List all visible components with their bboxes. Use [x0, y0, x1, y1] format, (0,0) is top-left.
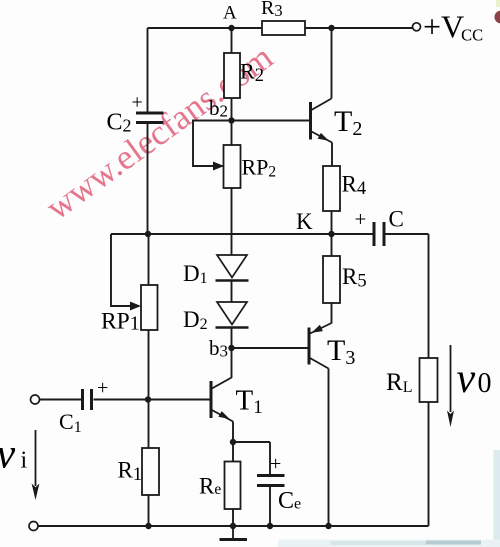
svg-text:+: + [270, 453, 281, 475]
wire middle vertical RP2 to D1 [231, 188, 233, 255]
svg-text:v: v [0, 432, 16, 478]
wire left vertical above C2 [147, 28, 149, 112]
potentiometer RP2 [213, 145, 276, 188]
wire middle vertical A to R2 [231, 28, 233, 53]
svg-text:D2: D2 [183, 307, 208, 333]
wire b2 to T2 base [232, 120, 311, 122]
wire C1 terminal to C1 [40, 399, 82, 401]
node A [223, 3, 237, 32]
node K [296, 209, 335, 237]
wire D1 to D2 [231, 281, 233, 302]
wire Re to bottom rail [232, 509, 234, 526]
wire emitter node to Ce [233, 441, 270, 443]
wire T1 base row [94, 399, 212, 401]
capacitor Ce [257, 453, 301, 514]
wire R4 to K node [331, 211, 333, 234]
svg-text:D1: D1 [183, 261, 208, 287]
svg-text:+: + [97, 377, 108, 399]
resistor Re [199, 462, 241, 510]
wire T2 emitter vertical to R4 [331, 143, 333, 167]
wire K node to R5 [331, 234, 333, 256]
resistor RL [386, 358, 438, 402]
transistor T2 [311, 99, 363, 143]
wire bottom rail [38, 525, 429, 527]
potentiometer RP1 [101, 285, 158, 335]
svg-text:A: A [223, 3, 237, 24]
node bottom rail T3 [325, 523, 331, 529]
wire top rail right segment [305, 27, 414, 29]
resistor R4 [323, 166, 366, 211]
node b2 [209, 96, 235, 124]
watermark www.elecfans.com [38, 36, 280, 227]
label vi with arrow [0, 430, 39, 500]
svg-text:+: + [132, 92, 143, 114]
resistor R5 [323, 256, 367, 303]
wire left vertical C2 to K-row [147, 124, 149, 234]
scan artifact right edge strip [494, 450, 500, 547]
resistor R3 [261, 0, 305, 35]
wire R5 to T3 emitter [331, 303, 333, 324]
wire middle vertical R2 to b2 [231, 98, 233, 145]
scan artifact top-right red blob [495, 11, 500, 24]
svg-text:R5: R5 [342, 264, 367, 292]
wire right vertical to RL [428, 234, 430, 358]
wire K-row horizontal [111, 233, 373, 235]
capacitor C1 [59, 377, 108, 436]
scan artifact bottom band [278, 540, 500, 547]
wire Ce top vertical [269, 442, 271, 474]
svg-text:+: + [355, 207, 367, 231]
terminal +Vcc [413, 9, 484, 45]
svg-text:RP2: RP2 [242, 155, 277, 181]
wire D2 to b3 [231, 328, 233, 348]
svg-text:T2: T2 [334, 105, 362, 140]
svg-text:R3: R3 [261, 0, 283, 20]
wire b2 left branch to RP2 wiper [193, 121, 232, 167]
svg-text:b3: b3 [209, 336, 228, 361]
node at Vcc branch [328, 25, 334, 31]
svg-text:Re: Re [199, 474, 221, 499]
wire T1 emitter vertical [232, 422, 234, 462]
resistor R1 [118, 448, 160, 495]
wire left vertical K-row to RP1 [148, 234, 150, 285]
node b3 [209, 336, 235, 361]
svg-text:i: i [21, 448, 28, 474]
svg-text:C: C [389, 207, 404, 232]
wire b3 down to T1 collector [231, 348, 233, 378]
node T1 base junction [145, 396, 151, 402]
wire RL to bottom rail [428, 402, 430, 526]
svg-text:0: 0 [478, 368, 492, 399]
svg-text:R1: R1 [118, 458, 143, 486]
svg-text:T3: T3 [327, 334, 355, 369]
resistor R2 [224, 53, 264, 98]
svg-text:RP1: RP1 [101, 309, 140, 335]
svg-text:C2: C2 [107, 110, 132, 136]
diode D2 [183, 302, 249, 333]
svg-text:Ce: Ce [278, 488, 301, 514]
svg-text:R4: R4 [342, 172, 367, 200]
wire left vertical R1 to bottom rail [148, 495, 150, 526]
transistor T3 [309, 323, 355, 369]
capacitor C2 [107, 92, 164, 136]
node left K-row junction [145, 231, 151, 237]
wire T2 collector vertical [331, 28, 333, 99]
svg-text:K: K [296, 209, 313, 234]
wire left vertical RP1 to R1 [148, 330, 150, 448]
svg-text:C1: C1 [59, 409, 82, 436]
svg-text:+VCC: +VCC [423, 9, 483, 45]
label v0 with arrow [447, 345, 492, 427]
transistor T1 [211, 378, 263, 422]
wire b3 to T3 base [232, 347, 311, 349]
svg-text:T1: T1 [236, 385, 263, 419]
ground [220, 526, 248, 540]
node bottom rail ground [230, 523, 236, 529]
diode D1 [183, 255, 249, 287]
wire Ce bottom vertical [269, 486, 271, 526]
wire K-row left branch down to RP1 wiper [111, 234, 130, 306]
terminal input top [31, 395, 40, 404]
svg-text:v: v [457, 356, 476, 402]
capacitor C [355, 207, 404, 247]
svg-text:RL: RL [386, 369, 412, 396]
node T1 emitter junction [230, 439, 236, 445]
node bottom rail Ce [267, 523, 273, 529]
wire T3 collector vertical to bottom rail [328, 369, 330, 527]
terminal input bottom [29, 522, 38, 531]
wire top rail left segment [148, 27, 263, 29]
node bottom rail R1 [145, 523, 151, 529]
wire C cap to right corner [385, 233, 429, 235]
scan artifact top-right green tint [496, 0, 500, 7]
